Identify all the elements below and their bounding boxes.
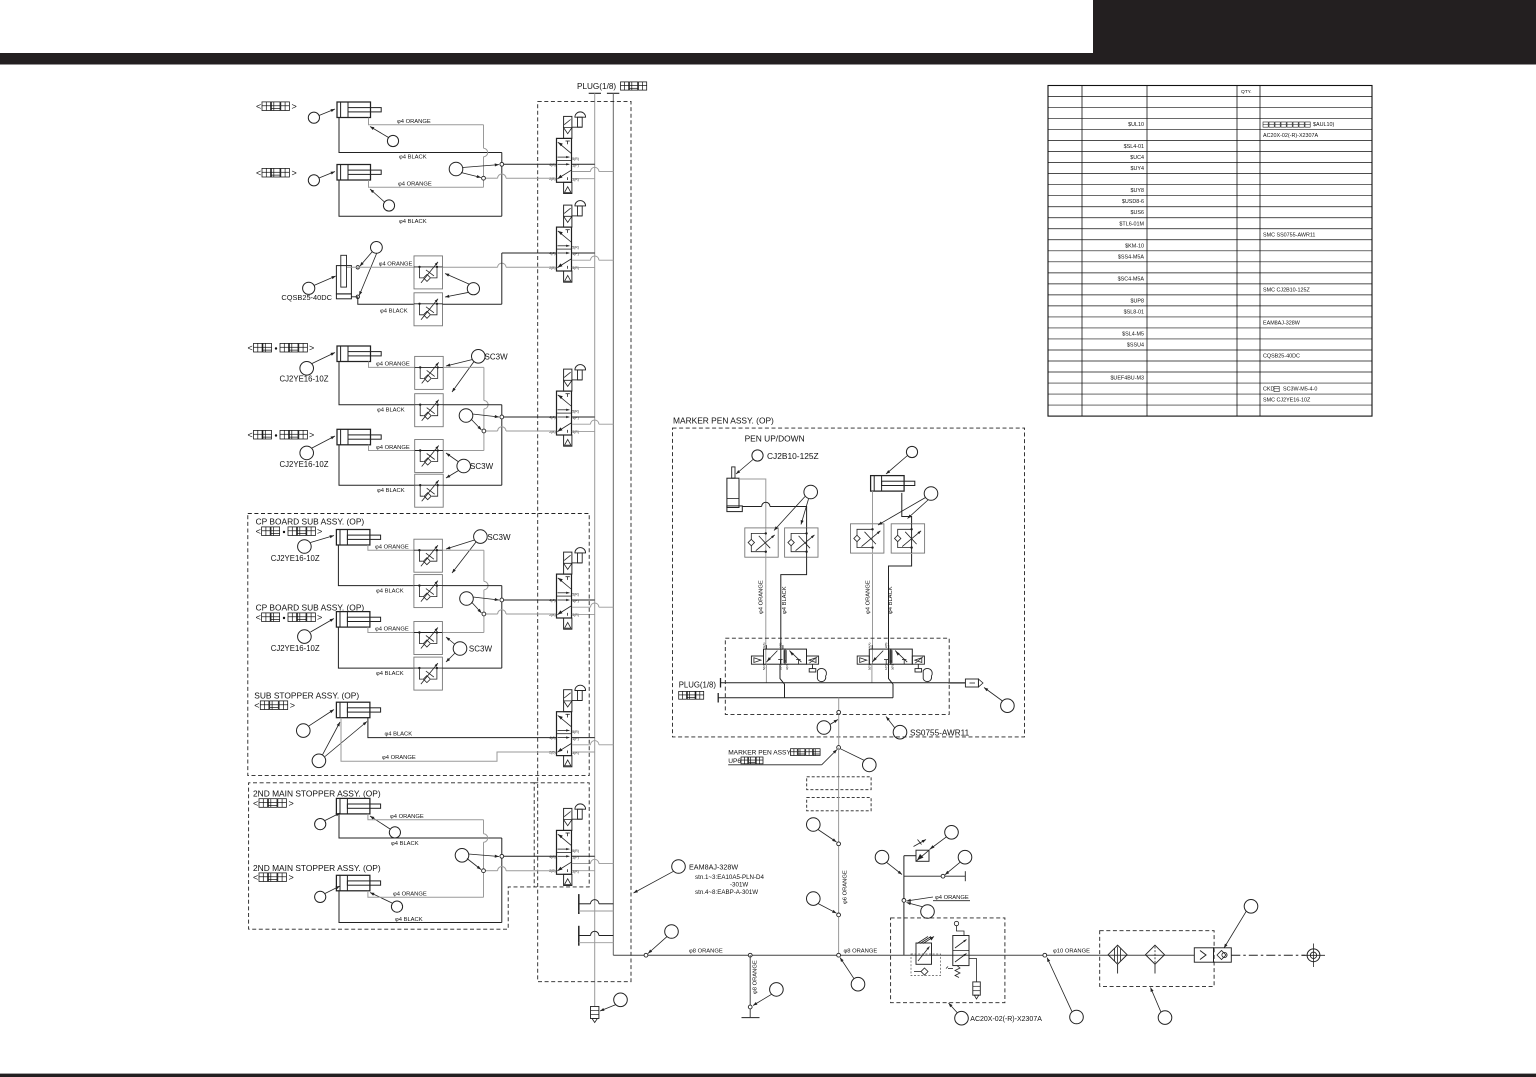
- svg-text:2ND MAIN STOPPER ASSY. (OP): 2ND MAIN STOPPER ASSY. (OP): [253, 863, 381, 873]
- svg-text:<: <: [256, 613, 261, 623]
- balloon mini filter: [614, 993, 628, 1007]
- svg-text:4(A): 4(A): [762, 642, 766, 648]
- wire pen verticals right: [872, 554, 874, 664]
- svg-text:MARKER PEN ASSY. (OP): MARKER PEN ASSY. (OP): [673, 416, 774, 426]
- svg-text:φ4 BLACK: φ4 BLACK: [376, 671, 404, 677]
- wire g3 orange: [369, 362, 415, 368]
- balloon pen flow controls left: [804, 485, 818, 499]
- phi6 line upper: [838, 748, 840, 777]
- wire g6 orange: [368, 627, 414, 632]
- header black block top-right: [1093, 0, 1536, 65]
- node A3: [500, 415, 504, 419]
- manifold valve MV1: [751, 656, 763, 664]
- balloon exhaust fitting: [1001, 699, 1015, 713]
- svg-text:EAM8AJ-328W: EAM8AJ-328W: [689, 863, 738, 872]
- balloon CQSB left: [303, 282, 315, 294]
- pilot exhaust mini filter: [591, 1007, 599, 1019]
- svg-text:EAM8AJ-328W: EAM8AJ-328W: [1263, 320, 1301, 326]
- svg-text:φ6 ORANGE: φ6 ORANGE: [843, 870, 849, 904]
- svg-text:φ4 ORANGE: φ4 ORANGE: [382, 755, 416, 761]
- svg-text:-301W: -301W: [730, 881, 748, 888]
- svg-text:φ4 BLACK: φ4 BLACK: [782, 586, 788, 614]
- wire fixed cyl black: [339, 118, 502, 153]
- balloon CQSB flow controls: [467, 283, 479, 295]
- svg-text:φ4 ORANGE: φ4 ORANGE: [379, 261, 413, 267]
- balloon g7 cylinder: [297, 724, 311, 738]
- svg-text:$SL4-01: $SL4-01: [1124, 144, 1144, 150]
- node B3: [482, 429, 486, 433]
- balloon pilot valve top: [945, 826, 959, 840]
- balloon g8 port: [389, 827, 400, 838]
- svg-text:φ4 ORANGE: φ4 ORANGE: [759, 580, 765, 614]
- svg-text:φ4 ORANGE: φ4 ORANGE: [397, 119, 431, 125]
- node B1: [482, 176, 486, 180]
- balloon main c: [851, 977, 865, 991]
- air filter: [1108, 945, 1127, 964]
- svg-text:φ4 BLACK: φ4 BLACK: [888, 586, 894, 614]
- flow control CQSB meter-in: [414, 293, 443, 326]
- svg-text:$KM-10: $KM-10: [1125, 243, 1144, 249]
- svg-text:MARKER PEN ASSY.: MARKER PEN ASSY.: [728, 750, 792, 757]
- balloon pen flow controls right: [924, 487, 938, 501]
- node phi6 b: [837, 913, 841, 917]
- svg-text:SC3W: SC3W: [485, 353, 509, 362]
- svg-text:5(R): 5(R): [572, 593, 579, 597]
- wire CQSB orange: [351, 266, 414, 268]
- balloon SV6 tubing: [455, 849, 469, 863]
- svg-text:<: <: [253, 873, 258, 883]
- balloon g3 cylinder: [300, 362, 314, 376]
- drain branch down: [749, 955, 751, 1007]
- node CQSB black port: [356, 295, 359, 298]
- balloon AC20X: [955, 1011, 969, 1025]
- node drain bottom: [748, 1005, 752, 1009]
- svg-text:>: >: [309, 343, 314, 353]
- svg-text:stn.4~8:EABP-A-301W: stn.4~8:EABP-A-301W: [695, 889, 758, 896]
- node B6: [482, 869, 486, 873]
- solenoid valve SV4: [557, 574, 572, 618]
- svg-text:5(R): 5(R): [572, 246, 579, 250]
- cylinder CJ2B10 (pen, vertical): [727, 478, 739, 507]
- svg-text:>: >: [289, 798, 294, 808]
- balloon SC3W g4: [457, 459, 471, 473]
- svg-text:3(R): 3(R): [572, 430, 579, 434]
- node phi4 pilot: [902, 899, 906, 903]
- svg-text:5(R): 5(R): [868, 664, 872, 670]
- wires CQSB to SV2: [443, 266, 498, 268]
- svg-text:2(B): 2(B): [549, 266, 555, 270]
- svg-text:3(R): 3(R): [785, 664, 789, 670]
- wire g9 orange: [368, 891, 484, 897]
- svg-text:CJ2YE16-10Z: CJ2YE16-10Z: [280, 375, 329, 384]
- svg-text:<: <: [253, 798, 258, 808]
- junction wires groups 1-2 to SV1: [483, 125, 485, 149]
- svg-text:SMC SS0755-AWR11: SMC SS0755-AWR11: [1263, 232, 1315, 238]
- svg-text:$SSU4: $SSU4: [1127, 342, 1144, 348]
- svg-text:φ4 BLACK: φ4 BLACK: [376, 588, 404, 594]
- balloon pen cyl 2: [906, 446, 917, 457]
- FR unit dashed box: [891, 918, 1005, 1003]
- svg-text:$TL6-01M: $TL6-01M: [1119, 221, 1144, 227]
- svg-text:5(R): 5(R): [572, 849, 579, 853]
- blank station plug 1: [578, 894, 580, 914]
- wire g8 black: [339, 814, 502, 838]
- svg-text:$USD8-6: $USD8-6: [1122, 199, 1144, 205]
- bus line P2 (pressure bus): [607, 92, 619, 94]
- flow control pen 1b: [785, 528, 818, 557]
- balloon manifold outlet: [817, 721, 831, 735]
- SV1 port lines to buses: [572, 163, 595, 165]
- svg-text:<: <: [256, 527, 261, 537]
- balloon g4 cylinder: [300, 446, 314, 460]
- svg-text:φ10 ORANGE: φ10 ORANGE: [1053, 949, 1090, 955]
- svg-text:>: >: [317, 527, 322, 537]
- balloon marker branch top: [863, 758, 877, 772]
- wire pen verticals left: [765, 557, 767, 664]
- wire g9 black: [339, 891, 502, 923]
- node marker branch top: [837, 746, 841, 750]
- svg-text:3(R): 3(R): [572, 751, 579, 755]
- svg-text:CQSB25-40DC: CQSB25-40DC: [1263, 353, 1300, 359]
- svg-text:<: <: [256, 168, 261, 178]
- flow control pen 2a: [851, 524, 884, 553]
- svg-text:5(R): 5(R): [762, 664, 766, 670]
- node A1: [500, 162, 504, 166]
- wire g7 black: [368, 718, 556, 738]
- marker pen assy dashed box: [673, 428, 1025, 737]
- svg-text:>: >: [289, 873, 294, 883]
- manifold internal bus: [765, 664, 767, 683]
- svg-text:SUB STOPPER ASSY. (OP): SUB STOPPER ASSY. (OP): [254, 691, 359, 701]
- wire g4 orange: [369, 445, 415, 451]
- svg-text:φ4 BLACK: φ4 BLACK: [399, 155, 427, 161]
- cylinder CJ2YE16-10Z (movable downstream): [337, 429, 371, 445]
- svg-text:PLUG(1/8): PLUG(1/8): [679, 681, 717, 690]
- pilot valve (manual): [916, 850, 929, 861]
- phi6 line mid: [838, 811, 840, 955]
- svg-text:$UC4: $UC4: [1130, 155, 1144, 161]
- node main a: [644, 953, 648, 957]
- valve bank dashed box: [538, 101, 631, 981]
- svg-text:$US6: $US6: [1131, 210, 1145, 216]
- node A6: [500, 854, 504, 858]
- svg-text:φ4 BLACK: φ4 BLACK: [395, 917, 423, 923]
- 2ND MAIN STOPPER dashed box: [249, 783, 535, 929]
- cylinder CJ2YE16-10Z (fixed upstream): [336, 530, 370, 546]
- node phi6 a: [837, 842, 841, 846]
- svg-text:$SS4-M5A: $SS4-M5A: [1118, 254, 1144, 260]
- balloon CJ2B10-125Z: [752, 450, 763, 461]
- svg-text:φ4 BLACK: φ4 BLACK: [380, 309, 408, 315]
- cylinder (pen right, horizontal): [871, 476, 905, 492]
- wire g6 black: [338, 627, 414, 668]
- svg-text:5(R): 5(R): [572, 730, 579, 734]
- mist separator: [1146, 945, 1165, 964]
- balloon to movable cyl port: [383, 200, 394, 211]
- svg-text:AC20X-02(-R)-X2307A: AC20X-02(-R)-X2307A: [970, 1016, 1042, 1023]
- svg-text:2(B): 2(B): [778, 642, 782, 648]
- wire pen cyl orange top: [739, 479, 766, 528]
- balloon phi6 b: [807, 892, 821, 906]
- SV5 port lines to buses: [572, 737, 595, 739]
- balloon to fixed cyl port: [387, 135, 398, 146]
- svg-text:$AUL10): $AUL10): [1313, 122, 1334, 128]
- svg-text:φ8 ORANGE: φ8 ORANGE: [689, 949, 723, 955]
- node A4: [500, 598, 504, 602]
- svg-text:$UEF4BU-M3: $UEF4BU-M3: [1110, 376, 1144, 382]
- wire pen2 orange: [872, 491, 874, 524]
- wire g4 black: [339, 445, 415, 485]
- wire g5 orange: [368, 545, 414, 550]
- manifold valve MV2: [857, 656, 869, 664]
- manifold outlet down: [838, 698, 840, 748]
- balloon main d: [1070, 1010, 1084, 1024]
- svg-text:PEN UP/DOWN: PEN UP/DOWN: [745, 434, 805, 444]
- wire pen cyl black: [742, 506, 761, 508]
- svg-text:>: >: [292, 102, 297, 112]
- svg-text:3(R): 3(R): [572, 613, 579, 617]
- svg-text:φ4 ORANGE: φ4 ORANGE: [376, 445, 410, 451]
- svg-text:2(B): 2(B): [884, 642, 888, 648]
- svg-text:SC3W: SC3W: [487, 533, 511, 542]
- svg-text:φ8 ORANGE: φ8 ORANGE: [753, 960, 759, 994]
- SV6 port lines to buses: [572, 855, 595, 857]
- svg-text:SC3W: SC3W: [469, 645, 493, 654]
- flow control CQSB meter-out: [414, 256, 443, 289]
- wire g8 orange: [368, 814, 484, 820]
- svg-text:SC3W-M5-4-0: SC3W-M5-4-0: [1283, 387, 1317, 393]
- svg-text:5(R): 5(R): [572, 410, 579, 414]
- svg-text:CJ2YE16-10Z: CJ2YE16-10Z: [271, 554, 320, 563]
- CP BOARD SUB ASSY dashed box: [248, 514, 589, 776]
- manifold plug ports PLUG(1/8): [720, 678, 722, 688]
- filter set dashed box: [1100, 931, 1214, 987]
- pilot branch wires: [904, 855, 916, 857]
- svg-text:>: >: [292, 168, 297, 178]
- cylinder (2nd main stopper movable): [336, 875, 370, 891]
- svg-text:$SL8-01: $SL8-01: [1124, 309, 1144, 315]
- balloon g6 cylinder: [298, 630, 312, 644]
- svg-text:φ4 BLACK: φ4 BLACK: [377, 408, 405, 414]
- pressure relief valve: [953, 936, 969, 966]
- svg-text:φ4 ORANGE: φ4 ORANGE: [375, 544, 409, 550]
- svg-text:CJ2YE16-10Z: CJ2YE16-10Z: [271, 644, 320, 653]
- main line through filters: [1100, 954, 1195, 956]
- bus line P1 (pilot/exhaust bus): [589, 92, 601, 94]
- SV2 port lines to buses: [572, 252, 595, 254]
- flow control SC3W g4a: [415, 440, 444, 473]
- air source symbol: [1307, 949, 1320, 962]
- flow control pen 1a: [745, 528, 778, 557]
- manifold SS0755 dashed box: [725, 638, 949, 714]
- balloon g7 ports: [312, 754, 326, 768]
- flow control SC3W g6b: [414, 657, 443, 690]
- svg-text:>: >: [317, 613, 322, 623]
- balloon SC3W g6: [453, 642, 467, 656]
- quick coupling: [1214, 948, 1232, 962]
- cylinder CQSB25-40DC: [336, 266, 351, 294]
- svg-text:φ4 ORANGE: φ4 ORANGE: [375, 627, 409, 633]
- balloon phi6 a: [807, 818, 821, 832]
- junction wires groups 5-6 to SV4: [442, 549, 484, 551]
- flow control SC3W g3b: [415, 394, 444, 427]
- svg-text:$SL4-M5: $SL4-M5: [1122, 331, 1144, 337]
- footer black line: [0, 1074, 1536, 1077]
- balloon pilot left: [875, 850, 889, 864]
- svg-text:UP6: UP6: [728, 758, 741, 765]
- wire movable cyl orange: [369, 180, 484, 187]
- svg-text:SMC CJ2B10-125Z: SMC CJ2B10-125Z: [1263, 287, 1310, 293]
- valve SV6 inner dashed box: [534, 783, 589, 887]
- solenoid valve SV3: [557, 391, 572, 435]
- balloon to movable cylinder: [308, 175, 319, 186]
- balloon pilot right: [958, 850, 972, 864]
- svg-text:CJ2B10-125Z: CJ2B10-125Z: [767, 451, 819, 461]
- balloon CQSB top: [371, 242, 383, 254]
- flow control SC3W g4b: [415, 474, 444, 507]
- node main c (phi6 tap): [837, 953, 841, 957]
- svg-text:>: >: [309, 430, 314, 440]
- svg-text:CKD: CKD: [1263, 387, 1274, 393]
- balloon SC3W g3: [472, 350, 486, 364]
- cylinder CJ2YE16-10Z (movable upstream): [336, 612, 370, 628]
- balloon SV4 tubing: [460, 592, 474, 606]
- svg-text:stn.1~3:EA10A5-PLN-D4: stn.1~3:EA10A5-PLN-D4: [695, 874, 765, 881]
- label EAM8AJ-328W + stations: [672, 860, 686, 874]
- solenoid valve SV2: [557, 227, 572, 271]
- wire pen2 black: [902, 493, 912, 524]
- flow control SC3W g6a: [414, 622, 443, 655]
- svg-text:CP BOARD SUB ASSY. (OP): CP BOARD SUB ASSY. (OP): [256, 517, 365, 527]
- wire g5 black: [338, 545, 414, 586]
- svg-text:3(R): 3(R): [572, 178, 579, 182]
- dash-dot supply line: [1231, 954, 1305, 956]
- svg-text:φ4 ORANGE: φ4 ORANGE: [376, 362, 410, 368]
- check valve: [1194, 948, 1213, 962]
- svg-text:<: <: [248, 430, 253, 440]
- balloon filter set: [1158, 1011, 1172, 1025]
- regulator: [916, 943, 932, 964]
- wire g3 black: [339, 362, 415, 405]
- balloon g9 port: [391, 901, 402, 912]
- flow control pen 2b: [891, 524, 924, 553]
- svg-text:<: <: [256, 102, 261, 112]
- svg-text:PLUG(1/8): PLUG(1/8): [577, 82, 616, 91]
- svg-text:$UY8: $UY8: [1131, 188, 1145, 194]
- flow control SC3W g5b: [414, 575, 443, 608]
- svg-text:5(R): 5(R): [572, 157, 579, 161]
- svg-text:$UL10: $UL10: [1128, 122, 1144, 128]
- svg-text:φ4 ORANGE: φ4 ORANGE: [393, 891, 427, 897]
- svg-text:3(R): 3(R): [572, 266, 579, 270]
- FR silencer: [969, 959, 977, 982]
- svg-text:φ4 ORANGE: φ4 ORANGE: [398, 182, 432, 188]
- node B4: [482, 612, 486, 616]
- blank station plug 2: [578, 926, 580, 946]
- svg-text:φ4 ORANGE: φ4 ORANGE: [866, 580, 872, 614]
- cylinder CJ2YE16-10Z (fixed downstream): [337, 346, 371, 362]
- svg-text:<: <: [248, 343, 253, 353]
- parts table grid: [1048, 86, 1372, 417]
- svg-text:SS0755-AWR11: SS0755-AWR11: [910, 729, 970, 738]
- balloon g5 cylinder: [298, 540, 312, 554]
- balloon drain: [770, 983, 784, 997]
- svg-text:φ4 BLACK: φ4 BLACK: [399, 219, 427, 225]
- balloon phi4 pilot: [921, 905, 935, 919]
- junction wires groups 3-4 to SV3: [443, 366, 484, 368]
- svg-text:φ4 ORANGE: φ4 ORANGE: [390, 814, 424, 820]
- flow control SC3W g5a: [414, 539, 443, 572]
- cylinder (sub stopper): [336, 702, 370, 718]
- svg-text:>: >: [290, 701, 295, 711]
- balloon SC3W g5: [474, 530, 488, 544]
- node main d: [1043, 953, 1047, 957]
- cylinder (2nd main stopper fixed): [336, 798, 370, 814]
- junction wires groups 8-9 to SV6: [483, 820, 485, 834]
- header black bar: [0, 53, 1536, 65]
- svg-text:φ4 ORANGE: φ4 ORANGE: [935, 895, 969, 901]
- node main b: [748, 953, 752, 957]
- svg-text:QTY.: QTY.: [1241, 89, 1252, 95]
- balloon SS0755-AWR11: [893, 725, 907, 739]
- svg-text:φ4 BLACK: φ4 BLACK: [391, 841, 419, 847]
- balloon to fixed cylinder: [308, 112, 319, 123]
- SV4 port lines to buses: [572, 599, 595, 601]
- svg-text:SMC CJ2YE16-10Z: SMC CJ2YE16-10Z: [1263, 398, 1311, 404]
- disconnect union dashed rect 1: [807, 777, 871, 790]
- main line phi8: [613, 954, 890, 956]
- disconnect union dashed rect 2: [807, 798, 871, 811]
- cylinder (fixed side): [337, 102, 371, 118]
- svg-text:SC3W: SC3W: [470, 462, 494, 471]
- svg-text:4(A): 4(A): [868, 642, 872, 648]
- wire fixed cyl orange: [369, 118, 484, 125]
- balloon g8 cylinder: [315, 819, 326, 830]
- svg-text:2ND MAIN STOPPER ASSY. (OP): 2ND MAIN STOPPER ASSY. (OP): [253, 789, 381, 799]
- svg-text:$UY4: $UY4: [1131, 166, 1145, 172]
- solenoid valve SV1: [557, 138, 572, 182]
- cylinder (movable side): [337, 165, 371, 181]
- svg-text:φ4 BLACK: φ4 BLACK: [385, 731, 413, 737]
- svg-text:$SC4-M5A: $SC4-M5A: [1118, 276, 1145, 282]
- flow control SC3W g3a: [415, 356, 444, 389]
- svg-text:$UP8: $UP8: [1131, 298, 1145, 304]
- svg-text:<: <: [254, 701, 259, 711]
- svg-text:CJ2YE16-10Z: CJ2YE16-10Z: [280, 460, 329, 469]
- svg-text:φ4 BLACK: φ4 BLACK: [377, 488, 405, 494]
- wire CQSB black: [358, 297, 414, 304]
- balloon g9 cylinder: [315, 891, 326, 902]
- wire g7 orange: [341, 718, 556, 762]
- svg-text:φ8 ORANGE: φ8 ORANGE: [844, 949, 878, 955]
- wire movable cyl black: [339, 180, 502, 216]
- solenoid valve SV6: [557, 830, 572, 874]
- solenoid valve SV5: [557, 712, 572, 756]
- node CQSB orange port: [356, 266, 359, 269]
- balloon SV1 tubing: [449, 162, 463, 176]
- svg-text:AC20X-02(-R)-X2307A: AC20X-02(-R)-X2307A: [1263, 133, 1319, 139]
- svg-text:3(R): 3(R): [572, 870, 579, 874]
- svg-text:3(R): 3(R): [891, 664, 895, 670]
- SV3 port lines to buses: [572, 416, 595, 418]
- balloon SV3 tubing: [459, 409, 473, 423]
- exhaust fitting right of manifold: [948, 682, 965, 684]
- balloon coupling: [1244, 900, 1258, 914]
- main line through FR: [891, 954, 1100, 956]
- balloon main a: [665, 925, 679, 939]
- svg-text:1(P): 1(P): [884, 664, 888, 670]
- node pilot h-line: [941, 874, 945, 878]
